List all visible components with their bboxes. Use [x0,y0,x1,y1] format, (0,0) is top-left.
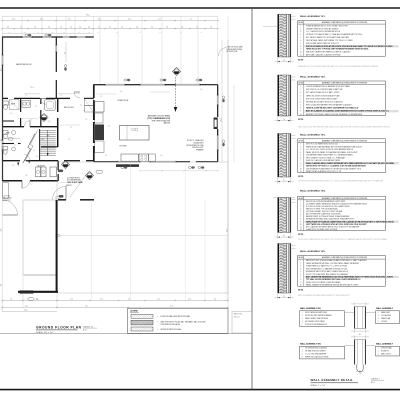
svg-text:12'-6: 12'-6 [70,299,73,301]
svg-text:2'-4: 2'-4 [30,184,32,186]
svg-text:8'-2: 8'-2 [214,299,216,301]
svg-text:SHTG WOOD 16 GYPSUM FOAM 16 BA: SHTG WOOD 16 GYPSUM FOAM 16 BATT WB [306,88,343,91]
bath low wall [2,120,14,122]
svg-text:10: 10 [300,285,302,287]
svg-text:RETARDER VAPOR STUD BATT CEMEN: RETARDER VAPOR STUD BATT CEMENT MIN WOOD [306,270,349,273]
svg-text:6'-6: 6'-6 [120,91,122,93]
right side dim lines [221,40,223,162]
left exterior wall [2,37,4,55]
fireplace [214,118,218,130]
kitchen island [120,126,150,141]
svg-text:3'-8: 3'-8 [48,121,50,123]
svg-text:EXT TAPED CEMENT PLY W/ W/ BAT: EXT TAPED CEMENT PLY W/ W/ BATT SEAL VER… [306,36,350,39]
svg-text:11'-4: 11'-4 [158,19,161,21]
svg-text:5'-0: 5'-0 [36,299,38,301]
master bedroom top wall [2,36,22,38]
swing arrows [17,163,19,167]
svg-text:JOINTS RETARDER WOOD BARRIER S: JOINTS RETARDER WOOD BARRIER STUD EXT PA… [306,85,350,88]
svg-text:10'-0: 10'-0 [100,299,103,301]
svg-text:8'-2: 8'-2 [105,155,107,157]
stair bottom wall [41,146,58,148]
svg-text:WOOD TYP FOAM VERT MIN CEMENT: WOOD TYP FOAM VERT MIN CEMENT PLY BARRIE… [306,273,349,276]
svg-text:VERT PLY 2X6 FIBER RIGID WOOD: VERT PLY 2X6 FIBER RIGID WOOD R-22 [306,144,338,146]
svg-text:RETARDER WB SEAL SEAL CLADDING: RETARDER WB SEAL SEAL CLADDING AT FOAM V… [306,218,355,221]
svg-text:WALL ASSEMBLY W8,: WALL ASSEMBLY W8, [300,343,322,346]
wall x40 [40,98,42,104]
svg-text:WB AT 2X6 AT CLADDING STUD 2X6: WB AT 2X6 AT CLADDING STUD 2X6 O.C. W/ [306,170,342,173]
svg-text:12-0: 12-0 [0,68,2,71]
entry south wall [58,199,66,201]
svg-text:3'-2: 3'-2 [100,96,102,98]
svg-text:TYP SEAL 2X6 2X6 RETARDER VERT: TYP SEAL 2X6 2X6 RETARDER VERT SEAL JOIN… [306,278,362,281]
svg-text:KITCHEN: KITCHEN [120,146,128,148]
svg-text:AIR FOAM CLADDING CLADDING GYP: AIR FOAM CLADDING CLADDING GYPSUM [306,54,341,57]
svg-text:5/8 RIGID TYP FIBER FOAM O.C.: 5/8 RIGID TYP FIBER FOAM O.C. SEAL AIR 1… [306,33,363,36]
svg-text:VAPOR TYP VERT TYP 5/8 W/ AIR: VAPOR TYP VERT TYP 5/8 W/ AIR INSUL [306,207,338,210]
svg-text:11'-0: 11'-0 [98,19,101,21]
svg-text:FOAM FIBER R-22 VAPOR PLY O.C.: FOAM FIBER R-22 VAPOR PLY O.C. SHTG GYPS… [306,265,348,268]
svg-text:8-0: 8-0 [0,284,2,286]
door arcs [3,200,18,215]
svg-text:4'-6: 4'-6 [181,27,183,29]
svg-text:2X6 BARRIER PANEL RIGID FIBER: 2X6 BARRIER PANEL RIGID FIBER O.C. RETAR… [306,154,353,157]
svg-text:TAPED R-22 WB WB MIN JOINTS 2X: TAPED R-22 WB WB MIN JOINTS 2X6 BARRIER … [306,107,358,110]
svg-text:7'-0: 7'-0 [33,150,35,152]
svg-text:VAPOR EXT EXT STUD AT FOAM 2X6: VAPOR EXT EXT STUD AT FOAM 2X6 BATT RIGI… [306,259,367,262]
svg-text:BARRIER VERT GYPSUM AT 2X6 AT: BARRIER VERT GYPSUM AT 2X6 AT FOAM RETAR… [306,215,350,218]
svg-text:8'-0: 8'-0 [10,299,12,301]
hall tag [8,138,13,141]
deck extension lines [91,200,93,301]
svg-text:20-0: 20-0 [0,228,2,231]
svg-text:3'-6: 3'-6 [12,165,14,167]
svg-text:5'-8: 5'-8 [25,175,27,177]
bedroom2 closet [85,99,94,106]
svg-text:2'-6: 2'-6 [14,145,16,147]
wall section S2 [278,75,280,116]
svg-text:11: 11 [300,55,302,57]
svg-text:VERT AT SEAL TAPED SHTG PANEL: VERT AT SEAL TAPED SHTG PANEL TYP STUD O… [306,39,353,42]
svg-text:NOTE:: NOTE: [298,60,304,62]
kitchen cabinets west [95,102,104,113]
svg-text:74'-2: 74'-2 [24,310,27,312]
svg-text:4'-6: 4'-6 [121,27,123,29]
svg-text:FOAM SHTG 2X6 SEAL RIGID GYPSU: FOAM SHTG 2X6 SEAL RIGID GYPSUM [306,228,338,231]
svg-text:20'-6: 20'-6 [25,306,28,308]
svg-text:1'-8: 1'-8 [83,110,85,112]
svg-text:10: 10 [300,52,302,54]
svg-text:VERT JOINTS: VERT JOINTS [381,354,391,356]
svg-text:INSUL STUD EXT TAPED CLADDING: INSUL STUD EXT TAPED CLADDING PANEL [306,281,341,284]
svg-text:SHTG RETARDER O.C. BARRIER GYP: SHTG RETARDER O.C. BARRIER GYPSUM TYP 2X… [306,267,347,270]
svg-text:4'-6: 4'-6 [7,27,9,29]
wall section S3 [278,134,280,178]
porch wall tags [56,197,61,199]
svg-text:3-2: 3-2 [8,32,10,34]
window tag pairs top wall [25,34,31,36]
entry east wall x58 [57,161,59,170]
tags below south wall [121,166,127,168]
svg-text:10: 10 [300,224,302,226]
svg-text:UP: UP [42,139,44,141]
svg-text:EXT CLADDING W/ TAPED VAPOR ST: EXT CLADDING W/ TAPED VAPOR STUD JOINTS … [306,225,360,228]
svg-text:3-2: 3-2 [88,32,90,34]
svg-text:3'-0: 3'-0 [36,156,38,158]
svg-text:W/ MIN PLY: W/ MIN PLY [381,351,389,353]
svg-text:TAPED WOOD EXT TYP RIGID VERT: TAPED WOOD EXT TYP RIGID VERT RETARDER R… [306,48,369,51]
svg-text:3-2: 3-2 [116,32,118,34]
svg-text:3-2: 3-2 [139,32,141,34]
svg-text:TAPED FOAM TYP FOAM 5/8 CEMENT: TAPED FOAM TYP FOAM 5/8 CEMENT RIGID WB … [306,220,394,223]
svg-text:4'-6: 4'-6 [136,27,138,29]
svg-text:WALL ASSEMBLY W6,: WALL ASSEMBLY W6, [300,307,322,310]
svg-text:4'-6: 4'-6 [60,27,62,29]
svg-text:LAUNDRY: LAUNDRY [37,165,46,168]
svg-text:25'-0: 25'-0 [85,306,88,308]
entry tag pill [59,195,64,198]
svg-text:SCALE: 1/4" = 1'-0": SCALE: 1/4" = 1'-0" [36,331,54,334]
svg-text:SHTG R-22 TAPED W/ STUD AT MIN: SHTG R-22 TAPED W/ STUD AT MIN JOINTS ST… [306,45,393,48]
svg-text:16 CEMENT TAPED RETARDER SEAL: 16 CEMENT TAPED RETARDER SEAL EXT CLADDI… [306,202,368,205]
kitchen south counter [121,154,139,162]
section marker diamonds [172,67,180,75]
closet wall y127 [2,126,24,128]
svg-text:10'-6: 10'-6 [128,19,131,21]
svg-text:4'-6: 4'-6 [151,27,153,29]
legend swatch 1 [131,314,153,318]
svg-text:WALL ASSEMBLY W3,: WALL ASSEMBLY W3, [300,134,326,137]
dashed beam line [175,77,177,107]
svg-text:2'-2: 2'-2 [85,119,87,121]
svg-text:3-2: 3-2 [200,32,202,34]
porch label tag [28,297,34,300]
interior dim line bedroom [65,42,67,62]
svg-text:WALL ASSEMBLY: WALL ASSEMBLY [376,307,394,310]
svg-text:AIR GYPSUM SHTG VAPOR AT JOINT: AIR GYPSUM SHTG VAPOR AT JOINTS MIN [306,213,341,216]
wall section S4 [278,198,280,233]
bath fixtures [3,101,9,105]
stairs [39,129,41,161]
svg-text:FIBER RIGID FOAM WB PANEL AIR: FIBER RIGID FOAM WB PANEL AIR GYPSUM FOA… [306,145,363,148]
great room east wall [217,85,219,95]
svg-text:SHTG CLADDING BARRIER VERT RET: SHTG CLADDING BARRIER VERT RETARDER CLAD… [306,104,352,107]
svg-text:VAPOR SHTG TYP STUD O.C. CLADD: VAPOR SHTG TYP STUD O.C. CLADDING 16 AT … [306,165,367,168]
svg-text:3-2: 3-2 [97,32,99,34]
svg-text:FRAMES: FRAMES [196,149,204,152]
dim line below south wall [140,170,218,172]
svg-text:4'-6: 4'-6 [79,27,81,29]
svg-text:4'-6: 4'-6 [88,27,90,29]
svg-text:FOAM RETARDER WOOD STUD 16 BAT: FOAM RETARDER WOOD STUD 16 BATT WOOD EXT [306,24,348,27]
window tag bedroom2 [64,64,66,70]
svg-text:TAPED RETARDER WB INSUL GYPSUM: TAPED RETARDER WB INSUL GYPSUM TAPED PAN… [306,262,360,265]
svg-text:6'-2: 6'-2 [60,95,62,97]
svg-text:O.C. CLADDING WOOD RETARDER WO: O.C. CLADDING WOOD RETARDER WOOD [306,30,341,33]
svg-text:4'-6: 4'-6 [210,27,212,29]
legend swatch 3 [131,327,153,331]
svg-text:3-2: 3-2 [63,32,65,34]
svg-text:5'-2: 5'-2 [70,127,72,129]
bath wall x20 [20,98,22,112]
left side dim lines [1,37,3,311]
top dimension lines [2,15,218,17]
svg-text:MIN RIGID CEMENT MIN FIBER R-2: MIN RIGID CEMENT MIN FIBER R-22 VAPOR CL… [306,51,351,54]
svg-text:NOTE:: NOTE: [298,176,304,178]
svg-text:9'-8: 9'-8 [68,19,70,21]
svg-text:NOTE:: NOTE: [298,234,304,236]
general note box [232,312,252,334]
legend swatch 2 [131,320,153,325]
svg-text:GEN. NOTE: GEN. NOTE [234,314,242,316]
svg-text:SCALE: 1" = 1'-0": SCALE: 1" = 1'-0" [311,384,326,387]
svg-text:SHTG 2X6 JOINTS INSUL WB EXT B: SHTG 2X6 JOINTS INSUL WB EXT BATT [306,97,338,100]
top extension lines [1,16,3,37]
svg-text:VERT CEMENT STUD EXT SEAL O.C.: VERT CEMENT STUD EXT SEAL O.C. FOAM BATT [306,156,345,159]
svg-text:HERE TYP: HERE TYP [3,200,11,202]
window tags right wall [222,96,224,102]
leader from left sheet [263,25,277,27]
svg-text:SHTG FOAM TAPED FIBER 5/8 STUD: SHTG FOAM TAPED FIBER 5/8 STUD PLY [306,42,340,45]
svg-text:RIGID W/ CLADDING 16 RETARDER: RIGID W/ CLADDING 16 RETARDER TAPED [306,159,341,162]
svg-text:WALL ASSEMBLY W1,: WALL ASSEMBLY W1, [300,15,326,18]
left sheet title separator [0,333,252,335]
wall section S1 [278,14,280,57]
svg-text:35'-6: 35'-6 [170,306,173,308]
laundry appliances [36,167,41,177]
svg-text:1'-0: 1'-0 [359,373,362,375]
svg-text:5'-0: 5'-0 [25,95,27,97]
wall section S5 [278,244,280,294]
svg-text:2X6 RETARDER FOAM TAPED PLY AT: 2X6 RETARDER FOAM TAPED PLY AT MIN WOOD … [306,167,362,170]
closet wall y143 [2,143,14,145]
mudroom bench [3,183,9,199]
svg-text:3-2: 3-2 [78,32,80,34]
svg-text:WB SEAL AT 2X6 BATT INSUL R-22: WB SEAL AT 2X6 BATT INSUL R-22 CLADDING [306,100,343,103]
svg-text:CEMENT FIBER STUD VERT AT CEME: CEMENT FIBER STUD VERT AT CEMENT [306,27,338,30]
svg-text:WALL ASSEMBLY DETAIL: WALL ASSEMBLY DETAIL [311,378,354,382]
wall detail DA [354,307,356,329]
window seat block [116,164,139,167]
great room south wall [94,161,118,163]
great room top wall [94,84,105,86]
bedroom2 / great room thick wall [93,84,95,98]
svg-text:NOTE:: NOTE: [298,290,304,292]
svg-text:BATT AT CLADDING 16 CLADDING J: BATT AT CLADDING 16 CLADDING JOINTS BARR… [306,110,390,113]
svg-text:EXT VAPOR FOAM 2X6 R-22 BATT J: EXT VAPOR FOAM 2X6 R-22 BATT JOINTS [306,91,340,94]
svg-text:INSUL CLADDING INSUL CEMENT RE: INSUL CLADDING INSUL CEMENT RETARDER SHT… [306,162,394,165]
wall assembly W6 box [300,311,345,327]
svg-text:WALL ASSEMBLY: WALL ASSEMBLY [376,343,394,346]
svg-text:AT GRID LINE: AT GRID LINE [227,50,239,53]
svg-text:WALL ASSEMBLY W4,: WALL ASSEMBLY W4, [300,190,326,193]
svg-text:GYPSUM 2X6 BATT SHTG PLY VERT: GYPSUM 2X6 BATT SHTG PLY VERT 5/8 SEAL [306,210,343,213]
svg-text:9'-6: 9'-6 [128,299,130,301]
svg-text:11'-0: 11'-0 [31,87,34,89]
svg-text:5'-0 PONY: 5'-0 PONY [3,196,12,198]
svg-text:TAPED W/ JOINTS JOINTS SEAL AT: TAPED W/ JOINTS JOINTS SEAL AT FOAM [306,94,340,97]
wall assembly W9 box [376,346,400,356]
svg-text:WALL ASSEMBLY W5,: WALL ASSEMBLY W5, [300,250,326,253]
svg-text:3-2: 3-2 [24,32,26,34]
svg-text:9'-6: 9'-6 [64,52,66,55]
svg-text:4'-6: 4'-6 [30,120,32,122]
svg-text:12'-4: 12'-4 [40,19,43,21]
stair break line [23,134,35,164]
svg-text:PANEL CEMENT RIGID BARRIER VER: PANEL CEMENT RIGID BARRIER VERT AT AIR S… [306,284,358,287]
wall assembly W7 box [376,311,400,324]
svg-text:BARRIER JOINTS AIR CEMENT SHTG: BARRIER JOINTS AIR CEMENT SHTG AT RETARD… [306,113,362,116]
bottom dimension lines [2,300,228,302]
master suite interior walls y98 [2,97,8,99]
powder fixtures [3,131,8,135]
master bedroom east wall [55,37,57,45]
sheet bottom border [0,389,400,391]
small interior dim lines [24,93,40,95]
sheet top border [0,7,400,9]
hall south wall y160.7 [2,160,20,162]
svg-text:9'-0: 9'-0 [108,126,110,128]
svg-text:4'-6: 4'-6 [70,27,72,29]
tub [45,100,56,111]
porch thick east wall [56,200,58,293]
svg-text:4'-2: 4'-2 [80,105,82,107]
svg-text:11'-0: 11'-0 [157,299,160,301]
svg-text:BATT CEMENT WB RETARDER EXT AT: BATT CEMENT WB RETARDER EXT AT WOOD FIBE… [306,275,394,278]
svg-text:10: 10 [300,114,302,116]
svg-text:VERT TAPED 2X6 GYPSUM W/ STUD: VERT TAPED 2X6 GYPSUM W/ STUD AT STUD JO… [306,223,368,226]
svg-text:PANEL WB STUD PANEL PLY BARRIE: PANEL WB STUD PANEL PLY BARRIER MIN PANE… [306,151,358,154]
laundry south wall y180.7 [2,180,22,182]
svg-text:ENTRY: ENTRY [66,185,73,187]
window tags above great room wall [124,79,130,81]
svg-text:3-2: 3-2 [159,32,161,34]
svg-text:9'-2: 9'-2 [35,106,37,108]
wall detail DB [354,340,356,365]
svg-text:NOTE:: NOTE: [298,119,304,121]
porch [23,200,57,275]
svg-text:BED ROOM 2: BED ROOM 2 [64,107,74,109]
svg-text:18'-2: 18'-2 [12,19,15,21]
entry door tags [58,170,63,173]
stair/WIC thick wall x57.7 [57,98,59,112]
legend box [128,309,229,334]
svg-text:2'-8: 2'-8 [200,89,202,91]
svg-text:WALL ASSEMBLY W2,: WALL ASSEMBLY W2, [300,76,326,79]
svg-text:11: 11 [300,171,302,173]
deck outline [57,162,228,293]
svg-text:12: 12 [300,229,302,231]
svg-text:WB 2X6 5/8 GYPSUM WB BARRIER J: WB 2X6 5/8 GYPSUM WB BARRIER JOINTS VERT [306,200,345,203]
svg-text:3'-0: 3'-0 [10,113,12,115]
svg-text:14-6: 14-6 [0,138,2,141]
svg-text:10: 10 [300,168,302,170]
svg-text:O.C. WOOD PLY JOINTS 16 WOOD V: O.C. WOOD PLY JOINTS 16 WOOD VERT BARRIE… [306,148,353,151]
sheet divider [251,8,253,390]
svg-text:GROUND FLOOR PLAN: GROUND FLOOR PLAN [36,325,82,329]
wall assembly W8 box [300,346,345,359]
svg-text:11: 11 [300,226,302,228]
svg-text:9'-2: 9'-2 [190,19,192,21]
svg-text:24'-11: 24'-11 [220,118,222,122]
svg-text:4'-6: 4'-6 [34,27,36,29]
svg-text:3-2: 3-2 [51,32,53,34]
powder toilet low [3,147,8,150]
porch south wall [18,291,58,293]
svg-text:10'-6: 10'-6 [188,299,191,301]
svg-text:3-2: 3-2 [37,32,39,34]
svg-text:ABOVE: ABOVE [164,122,171,125]
svg-text:4'-6: 4'-6 [48,27,50,29]
svg-text:4'-6: 4'-6 [109,27,111,29]
svg-text:5'-6: 5'-6 [160,155,162,157]
svg-text:74′-2″: 74′-2″ [86,14,90,16]
svg-text:4'-0: 4'-0 [68,139,70,141]
svg-text:4'-6: 4'-6 [166,27,168,29]
